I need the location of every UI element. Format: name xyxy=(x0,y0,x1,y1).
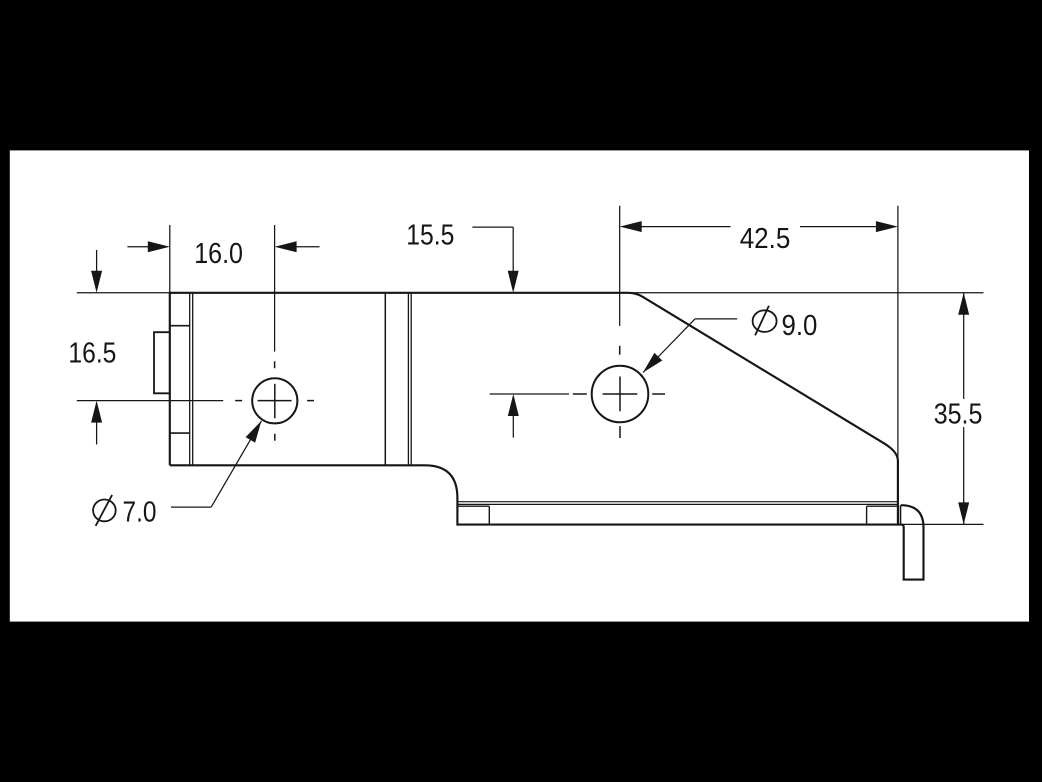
svg-text:16.0: 16.0 xyxy=(194,238,243,270)
svg-text:9.0: 9.0 xyxy=(782,310,818,342)
svg-text:42.5: 42.5 xyxy=(740,223,791,255)
svg-text:35.5: 35.5 xyxy=(934,398,983,430)
svg-text:7.0: 7.0 xyxy=(123,496,157,528)
svg-text:15.5: 15.5 xyxy=(406,220,454,252)
svg-text:16.5: 16.5 xyxy=(68,338,116,370)
